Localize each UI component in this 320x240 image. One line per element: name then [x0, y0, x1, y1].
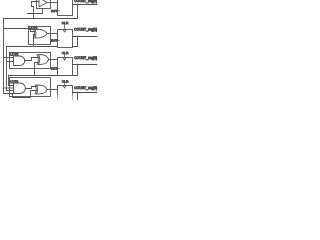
svg-text:CLR: CLR — [62, 21, 69, 25]
xor gate LUT4 — [37, 85, 48, 94]
wire RST stub FF1 — [57, 10, 60, 12]
arrowhead Q0 — [96, 4, 98, 6]
wire Q3 branch down — [77, 93, 79, 101]
LUT1 box — [37, 0, 51, 9]
wire RST stub FF3 — [57, 68, 60, 70]
xor gate LUT4 input arc — [35, 85, 36, 94]
wire RST stub FF2 — [57, 40, 60, 42]
arrowhead Q1 — [96, 36, 98, 38]
LUT4 box — [10, 78, 51, 97]
junction dot Q1 — [77, 36, 79, 38]
flip-flop COUNT_reg[3] box — [58, 86, 73, 104]
svg-text:RST: RST — [51, 9, 58, 13]
wire CLK stub FF3 — [64, 55, 66, 58]
junction dot Q0 — [77, 4, 79, 6]
wire Q1 stub into LUT3 AND input B — [7, 61, 14, 63]
wire XOR4 out to FF4 D — [47, 89, 57, 91]
svg-text:COUNT_reg[2]: COUNT_reg[2] — [74, 56, 97, 60]
flip-flop COUNT_reg[1] box — [58, 30, 73, 48]
LUT2 box — [29, 27, 51, 45]
xor gate LUT2 input arc — [33, 29, 34, 38]
wire XOR3 out to FF3 D — [49, 59, 58, 61]
svg-text:COUNT_reg[0]: COUNT_reg[0] — [74, 0, 97, 3]
wire XOR2 out to FF2 D — [47, 33, 57, 35]
fade bottom of FF4 box — [56, 95, 75, 101]
wire Q1 output — [73, 36, 97, 38]
LUT3 box — [10, 53, 51, 69]
wire CLK stub FF2 — [64, 25, 66, 30]
wire Q1 corner into LUT4 AND bottom input — [7, 90, 14, 92]
junction dot Q2 — [77, 64, 79, 66]
and gate LUT4 — [14, 83, 26, 94]
svg-text:COUNT_reg[3]: COUNT_reg[3] — [74, 86, 97, 90]
xor gate LUT2 — [35, 29, 47, 38]
wire Q1 branch up into XOR2 lower input — [34, 35, 35, 47]
svg-text:CLR: CLR — [62, 51, 69, 55]
clock triangle FF2 — [63, 30, 66, 32]
wire Q2 branch up into XOR3 lower input — [35, 63, 39, 76]
wire LUT1 input vertical — [32, 2, 40, 19]
arrowhead Q3 — [96, 92, 98, 94]
wire Q0 feedback from FF1 branch — [4, 5, 78, 19]
wire middle input LUT4 AND — [4, 87, 14, 89]
wire CLK stub FF4 — [64, 83, 66, 86]
flip-flop COUNT_reg[0] box — [58, 0, 73, 16]
and gate LUT3 — [14, 56, 25, 66]
clock triangle FF3 — [63, 58, 66, 60]
arrowhead Q2 — [96, 64, 98, 66]
wire Q0 output — [73, 4, 97, 6]
wire Q2 feedback from FF3 — [9, 65, 78, 86]
wire y13 line — [28, 9, 43, 14]
wire Q0 stub into LUT2 — [4, 29, 35, 32]
wire AND3 out jog to XOR3 upper input — [25, 58, 39, 61]
svg-text:COUNT_reg[1]: COUNT_reg[1] — [74, 28, 97, 32]
flip-flop COUNT_reg[2] box — [58, 58, 73, 76]
clock triangle FF4 — [63, 86, 66, 88]
wire Q0 stub into LUT3 AND input A — [4, 57, 14, 59]
wire LUT1 out to FF1 D — [47, 2, 57, 4]
xor gate LUT3 — [39, 55, 49, 65]
wire Q0 bus vertical x3 — [3, 19, 5, 94]
xor gate LUT3 input arc — [37, 55, 38, 65]
wire Q3 output — [73, 92, 97, 94]
wire bottom route into XOR4 lower input — [4, 91, 37, 98]
wire AND4 out jog to XOR4 upper input — [25, 87, 36, 89]
junction dot Q3 — [77, 92, 79, 94]
svg-text:CLR: CLR — [62, 79, 69, 83]
wire Q1 bus vertical x6 — [7, 37, 78, 91]
buffer LUT1 — [39, 0, 47, 7]
wire Q2 output — [73, 64, 97, 66]
